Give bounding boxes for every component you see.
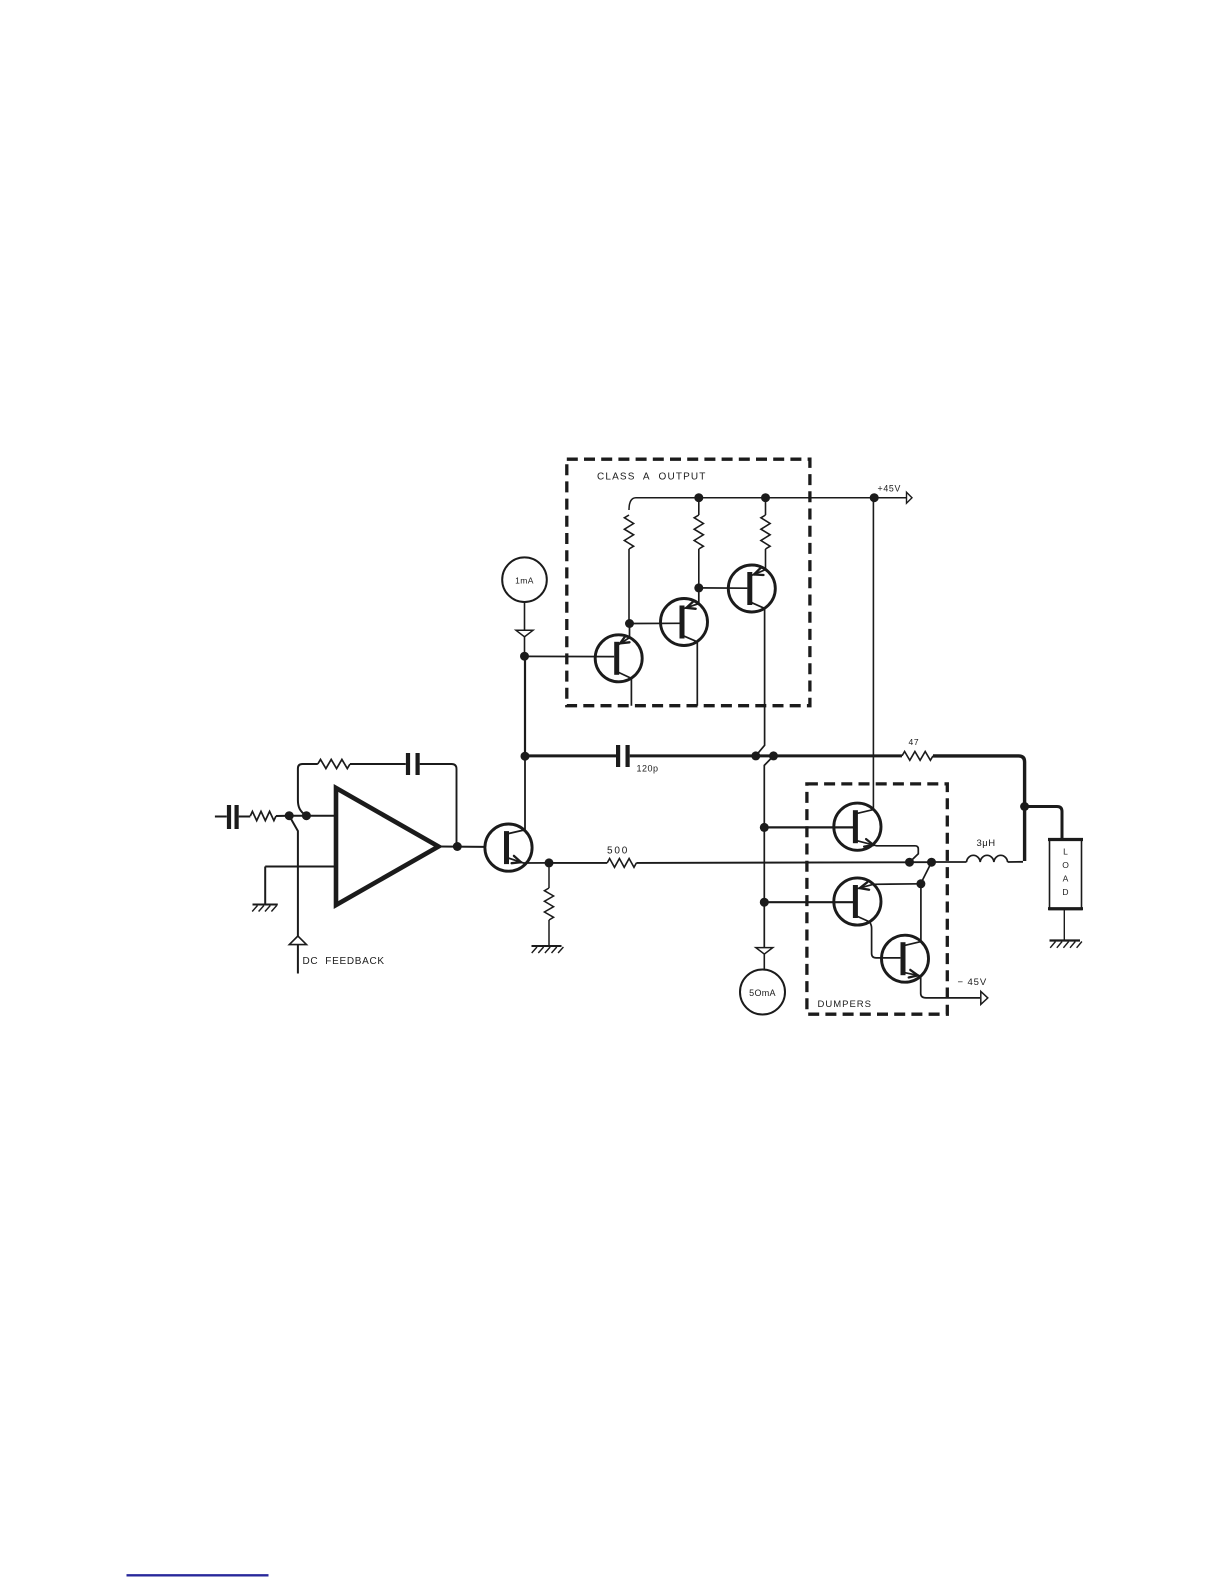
capacitor C3 (120p) [618, 745, 628, 767]
node A (input / dc-feedback junction) [285, 811, 294, 820]
node E (Q2 base drive) [520, 652, 529, 661]
wire L1 to bridge corner [1008, 861, 1023, 863]
wire load to ground [1063, 910, 1065, 940]
footer rule (blue) [127, 1574, 269, 1576]
node G (rail / R6) [761, 493, 770, 502]
ground (op-amp + input) [252, 905, 278, 912]
wire node D to R7 [549, 862, 607, 864]
wire +45V rail [629, 498, 906, 510]
transistor Q2 (class A, pnp) [595, 635, 642, 682]
wire Q2 emitter lead [619, 624, 630, 645]
current source I1 (1mA) [502, 557, 547, 602]
wire C3 to node L [630, 754, 756, 757]
svg-text:5OmA: 5OmA [749, 988, 776, 998]
wire node J to Q4 base [699, 587, 748, 589]
node H (rail / dumper feed) [870, 493, 879, 502]
wire node P to L1 [932, 861, 967, 863]
svg-text:L: L [1063, 847, 1068, 857]
resistor R2 (feedback) [318, 759, 350, 768]
node K (Q1 collector / C3) [521, 752, 530, 761]
wire node S to Q7 collector [903, 884, 921, 946]
wire Q6 collector lead [855, 916, 900, 958]
label -45V [958, 977, 988, 988]
dashed box CLASS A OUTPUT [567, 459, 810, 706]
label 47 [909, 737, 920, 747]
node J (R5 / Q3 emitter / Q4 base) [694, 583, 703, 592]
resistor R5 [694, 498, 703, 588]
transistor Q1 (VAS, npn) [485, 824, 532, 871]
transistor Q3 (class A, pnp) [661, 599, 708, 646]
resistor R4 [624, 515, 633, 624]
transistor Q6 (dumper driver, pnp) [834, 878, 881, 925]
node R (Q6 base) [760, 898, 769, 907]
dc feedback arrow (open, up) [289, 936, 306, 945]
svg-text:+45V: +45V [878, 484, 902, 494]
svg-text:DC FEEDBACK: DC FEEDBACK [303, 956, 385, 967]
resistor R3 (Q1 emitter to ground) [544, 888, 553, 920]
wire node M to dumper bases [764, 756, 773, 947]
svg-text:47: 47 [909, 737, 920, 747]
ground (below load) [1050, 941, 1082, 948]
wire node Q to Q5 base [764, 826, 853, 828]
node F (rail / R5) [694, 493, 703, 502]
wire node D down [548, 863, 550, 888]
node D (Q1 emitter) [545, 858, 554, 867]
wire node N to load [1025, 807, 1062, 840]
wire + input to ground [264, 867, 266, 904]
current arrow (open, down) at I1 [516, 630, 533, 637]
wire R7 to node O [636, 861, 909, 864]
node B (op-amp inverting input junction) [302, 811, 311, 820]
transistor Q5 (dumper, npn) [834, 803, 881, 850]
node I (R4 / Q2 emitter / Q3 base) [625, 619, 634, 628]
wire node B to op-amp - input [306, 815, 336, 817]
node O (Q5 emitter junction) [905, 858, 914, 867]
label 120p [637, 764, 659, 774]
resistor R6 [761, 498, 770, 570]
wire +45V to Q5 collector [872, 498, 874, 810]
wire input lead [215, 816, 227, 818]
inductor L1 (3uH) [967, 855, 1008, 862]
wire dc-feedback drop [289, 816, 298, 938]
wire C2 to output corner [420, 764, 457, 847]
load box [1048, 839, 1083, 910]
wire node K to C3 [525, 754, 616, 757]
wire Q2 collector lead [617, 672, 632, 706]
wire node O to node P [910, 861, 932, 863]
svg-text:120p: 120p [637, 764, 659, 774]
wire arrow to node E [524, 637, 526, 656]
wire node E to 120p node [524, 656, 526, 756]
label +45V [878, 484, 902, 494]
resistor R8 (47) [902, 752, 933, 761]
node P (output node) [927, 858, 936, 867]
svg-text:A: A [1063, 874, 1069, 884]
current source I2 (50mA) [740, 970, 785, 1015]
svg-text:DUMPERS: DUMPERS [818, 999, 873, 1010]
wire arrow to I2 [763, 954, 765, 970]
wire R8 to output corner [933, 756, 1025, 861]
wire below dc-feedback arrow [297, 945, 299, 974]
resistor R7 (500) [607, 859, 636, 868]
wire Q1 emitter lead [507, 856, 550, 863]
label 500 [607, 846, 629, 857]
wire node I to Q3 base [630, 622, 680, 624]
node N (output / load branch) [1020, 802, 1029, 811]
wire feedback riser [298, 764, 318, 816]
wire Q4 emitter lead [752, 568, 766, 576]
wire op-amp output [439, 846, 486, 848]
node C (op-amp output) [453, 842, 462, 851]
svg-text:− 45V: − 45V [958, 977, 988, 988]
wire op-amp + input [265, 866, 336, 868]
wire Q5 emitter lead [855, 839, 918, 862]
+45V arrow (open, right) [907, 492, 913, 503]
node L (Q4 collector junction) [751, 751, 760, 760]
transistor Q7 (dumper, npn) [882, 935, 929, 982]
svg-text:1mA: 1mA [515, 575, 534, 585]
wire Q4 collector lead [750, 602, 765, 756]
wire Q7 emitter lead [903, 970, 980, 998]
wire node R to Q6 base [764, 901, 853, 903]
wire Q1 collector lead [507, 756, 526, 834]
capacitor C1 (input coupling) [229, 805, 250, 829]
svg-text:500: 500 [607, 846, 629, 857]
dashed box DUMPERS [807, 784, 947, 1014]
node S (Q6 emitter / Q7 collector) [916, 879, 925, 888]
label CLASS A OUTPUT [597, 472, 707, 483]
wire I1 to arrow [524, 602, 526, 630]
node Q (Q5 base) [760, 823, 769, 832]
wire Q3 collector lead [682, 635, 697, 706]
op-amp U1 [336, 788, 439, 905]
svg-text:3μH: 3μH [977, 838, 996, 849]
capacitor C2 (feedback) [408, 753, 418, 775]
transistor Q4 (class A, pnp) [728, 565, 775, 612]
wire Q3 emitter lead [684, 588, 699, 609]
resistor R1 (input series) [250, 811, 276, 820]
wire node P to node S [921, 862, 932, 883]
label DC FEEDBACK [303, 956, 385, 967]
wire node M to R8 [774, 754, 903, 757]
-45V arrow (open, right) [981, 991, 988, 1004]
svg-text:CLASS A OUTPUT: CLASS A OUTPUT [597, 472, 707, 483]
wire node A to node B [289, 815, 306, 817]
wire R3 to ground [548, 920, 550, 945]
label DUMPERS [818, 999, 873, 1010]
ground (below R3) [532, 946, 564, 953]
wire R2 to C2 [350, 763, 406, 765]
wire node L to node M [756, 754, 774, 757]
wire Q5 collector lead [855, 810, 873, 814]
svg-text:O: O [1062, 860, 1069, 870]
label 3uH [977, 838, 996, 849]
current arrow (open, down) at I2 [756, 948, 773, 955]
node M (dumper drive junction) [769, 751, 778, 760]
wire R1 to node A [276, 815, 289, 817]
svg-text:D: D [1062, 887, 1068, 897]
wire node E to Q2 base [525, 655, 615, 657]
wire Q6 emitter lead [857, 882, 921, 889]
